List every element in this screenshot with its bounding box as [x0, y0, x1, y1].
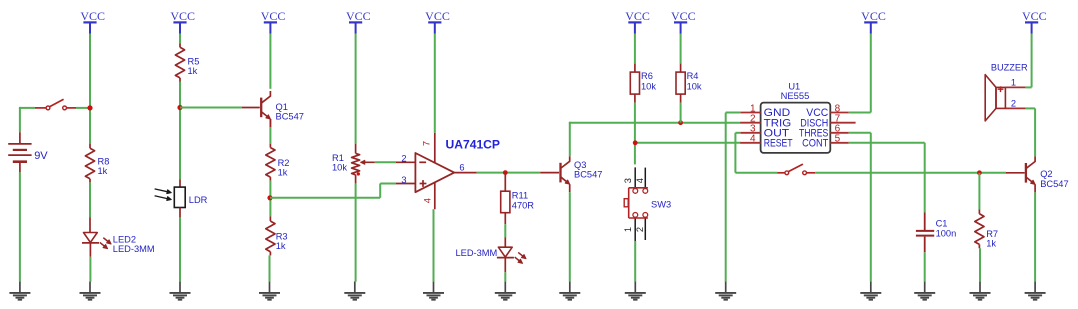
- svg-text:Q2: Q2: [1040, 169, 1052, 179]
- svg-text:C1: C1: [936, 219, 948, 229]
- svg-text:10k: 10k: [687, 81, 702, 91]
- svg-text:2: 2: [635, 227, 645, 232]
- svg-text:VCC: VCC: [346, 9, 371, 23]
- svg-text:10k: 10k: [641, 81, 656, 91]
- svg-text:4: 4: [635, 178, 645, 183]
- svg-text:6: 6: [459, 162, 464, 172]
- svg-text:470R: 470R: [512, 200, 535, 210]
- svg-text:1k: 1k: [986, 238, 996, 248]
- svg-text:1: 1: [623, 227, 633, 232]
- svg-text:BC547: BC547: [1040, 179, 1068, 189]
- svg-text:1k: 1k: [276, 241, 286, 251]
- svg-text:VCC: VCC: [861, 9, 886, 23]
- svg-text:BUZZER: BUZZER: [991, 63, 1028, 73]
- svg-text:CONT: CONT: [802, 137, 829, 149]
- svg-text:VCC: VCC: [625, 9, 650, 23]
- svg-text:BC547: BC547: [574, 170, 602, 180]
- svg-text:LED-3MM: LED-3MM: [113, 244, 155, 254]
- svg-text:1: 1: [1011, 78, 1016, 88]
- svg-text:BC547: BC547: [276, 112, 304, 122]
- svg-text:4: 4: [422, 198, 432, 203]
- svg-text:2: 2: [401, 153, 406, 163]
- svg-text:Q3: Q3: [574, 160, 586, 170]
- svg-text:VCC: VCC: [425, 9, 450, 23]
- svg-text:LDR: LDR: [189, 195, 208, 205]
- svg-text:1k: 1k: [278, 167, 288, 177]
- svg-text:VCC: VCC: [261, 9, 286, 23]
- svg-text:UA741CP: UA741CP: [446, 139, 501, 151]
- svg-text:4: 4: [750, 134, 756, 145]
- svg-text:U1: U1: [788, 81, 800, 91]
- svg-text:9V: 9V: [34, 150, 48, 162]
- svg-text:2: 2: [1011, 99, 1016, 109]
- svg-text:R4: R4: [687, 71, 699, 81]
- svg-text:1k: 1k: [188, 66, 198, 76]
- svg-text:RESET: RESET: [764, 137, 793, 149]
- svg-text:R11: R11: [512, 191, 528, 201]
- svg-text:3: 3: [623, 178, 633, 183]
- svg-text:100n: 100n: [936, 228, 957, 238]
- svg-text:VCC: VCC: [170, 9, 195, 23]
- svg-text:LED-3MM: LED-3MM: [455, 248, 497, 258]
- svg-text:10k: 10k: [332, 163, 347, 173]
- svg-text:R6: R6: [641, 71, 653, 81]
- svg-text:Q1: Q1: [276, 102, 288, 112]
- svg-text:VCC: VCC: [671, 9, 696, 23]
- svg-text:3: 3: [401, 175, 406, 185]
- svg-text:NE555: NE555: [781, 91, 810, 101]
- svg-text:5: 5: [835, 134, 841, 145]
- svg-text:SW3: SW3: [651, 199, 671, 209]
- svg-text:VCC: VCC: [80, 9, 105, 23]
- svg-text:1k: 1k: [98, 166, 108, 176]
- svg-text:VCC: VCC: [1022, 9, 1047, 23]
- svg-text:7: 7: [422, 141, 432, 146]
